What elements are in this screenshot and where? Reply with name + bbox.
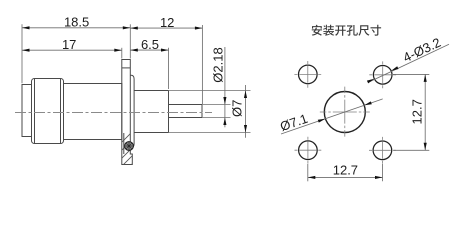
extension line body end (x=121.8)	[121, 48, 123, 59]
leader 4-dia3.2	[368, 44, 449, 82]
center hole dia 7.1	[324, 92, 365, 133]
arrow dia7 top	[244, 91, 247, 99]
arrow dia2.18 bottom	[223, 118, 226, 126]
pin top extension to dia dim	[202, 104, 231, 106]
connector main body	[64, 84, 122, 140]
nut chamfer line left	[34, 79, 36, 144]
svg-text:Ø7: Ø7	[230, 100, 245, 117]
dimension line 6.5	[130, 49, 169, 51]
extension line flange face (x=130.3)	[129, 24, 131, 58]
leader dia7.1 arrows	[318, 101, 372, 122]
arrow 12 right	[195, 27, 203, 30]
extension line cylinder end (x=168.8)	[168, 48, 170, 89]
arrow v12.7 bottom	[424, 143, 427, 151]
coupling nut	[32, 79, 64, 144]
nut chamfer line right	[60, 79, 62, 144]
extension from BL hole	[307, 164, 309, 181]
svg-text:Ø2.18: Ø2.18	[211, 47, 226, 82]
arrow 6.5 left	[130, 49, 138, 52]
rear cylinder end face	[168, 91, 170, 133]
hole bottom-right	[373, 141, 392, 160]
leader dia7.1	[281, 99, 383, 134]
mounting flange outline	[122, 60, 133, 165]
extension from BR hole	[394, 149, 430, 151]
hole top-right	[373, 66, 392, 85]
crosshair BL	[295, 149, 322, 151]
horizontal 12.7 dimension	[308, 164, 383, 181]
arrow 18.5 right	[123, 26, 131, 29]
arrow 17 left	[22, 49, 30, 52]
svg-text:18.5: 18.5	[64, 15, 89, 30]
dia 2.18 dimension line	[224, 47, 226, 127]
dim line	[308, 176, 383, 178]
center hole crosshair v	[344, 87, 346, 138]
contact pin top edge	[169, 104, 203, 106]
svg-text:17: 17	[62, 37, 76, 52]
contact pin bottom edge	[169, 117, 203, 119]
section hatching in flange bottom	[112, 122, 142, 192]
dimension line 18.5	[22, 27, 130, 29]
arrowheads left view	[22, 26, 247, 132]
crosshair TR	[369, 74, 396, 76]
svg-text:12.7: 12.7	[333, 162, 358, 177]
arrow h12.7 left	[308, 176, 316, 179]
crosshair centerlines	[294, 61, 396, 164]
dim line	[424, 74, 426, 150]
arrow 17 right	[114, 49, 122, 52]
arrow dia2.18 top	[223, 97, 226, 105]
arrow v12.7 top	[424, 74, 427, 82]
cylinder top extension to dia7 dim	[169, 90, 251, 92]
extension from BR hole	[382, 164, 384, 181]
title 安装开孔尺寸	[312, 25, 381, 36]
svg-text:12.7: 12.7	[410, 99, 425, 124]
dia 7 dimension line	[245, 85, 247, 138]
dimension line 17	[22, 49, 122, 51]
leader 4-dia3.2 arrows	[367, 66, 399, 83]
contact pin end face	[201, 105, 203, 118]
crosshair BR	[369, 149, 396, 151]
crosshair TL	[294, 73, 321, 75]
flange inner section line	[123, 133, 125, 154]
cylinder bottom extension to dia7 dim	[169, 132, 251, 134]
center hole crosshair h	[320, 111, 370, 113]
svg-text:12: 12	[160, 15, 174, 30]
centerline of connector axis	[15, 112, 212, 114]
arrow dia7 bottom	[244, 125, 247, 133]
extension from TR hole	[393, 73, 429, 75]
dimension line 12	[130, 27, 202, 29]
o-ring gasket (sectioned)	[125, 142, 134, 151]
arrow h12.7 right	[375, 176, 383, 179]
arrow 6.5 right	[161, 49, 169, 52]
connector front cylinder (left end)	[22, 85, 32, 137]
flange top tab line	[122, 67, 131, 69]
hole bottom-left	[299, 141, 318, 160]
hole top-left	[299, 65, 318, 84]
arrow 12 left	[130, 27, 138, 30]
rear cylinder bottom edge	[134, 132, 168, 134]
arrow 18.5 left	[22, 26, 30, 29]
rear cylinder top edge	[134, 90, 168, 92]
washer behind flange	[130, 75, 134, 147]
pin bottom extension to dia dim	[202, 117, 231, 119]
extension line pin end (x=202.4)	[201, 25, 203, 104]
extension line left (x=22)	[21, 24, 23, 83]
svg-text:6.5: 6.5	[141, 37, 159, 52]
vertical 12.7 dimension	[393, 74, 429, 150]
